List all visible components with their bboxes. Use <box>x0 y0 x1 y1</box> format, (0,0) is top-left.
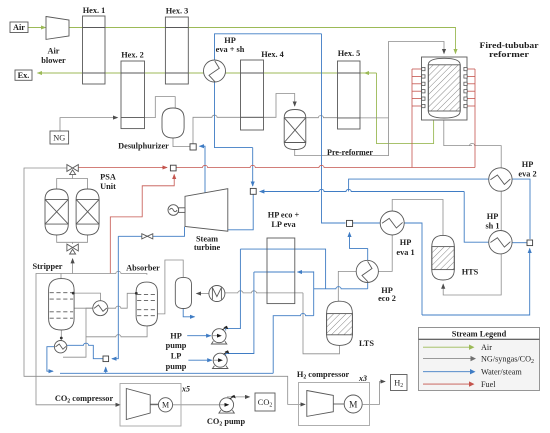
wire flash drum blue outlet <box>183 309 194 317</box>
svg-text:M: M <box>162 401 169 410</box>
wire PSA bottom piping <box>57 235 88 243</box>
svg-text:eva + sh: eva + sh <box>216 45 245 54</box>
mixer square sh1 feed <box>527 240 533 246</box>
svg-text:Air: Air <box>13 23 25 32</box>
svg-text:HP: HP <box>170 331 182 340</box>
wire sh mixer square outlet to sh1 <box>512 242 527 244</box>
wire NG Hex2 to desulphurizer top <box>145 97 176 118</box>
wire eva1 outlet drop <box>404 223 422 315</box>
Stripper column <box>49 279 75 330</box>
svg-text:x5: x5 <box>181 385 190 394</box>
legend arrow water <box>423 371 471 373</box>
CO2 compressor enclosure <box>120 384 181 427</box>
wire sh1 left riser <box>464 192 489 243</box>
H2 product box <box>391 375 408 391</box>
CO2 product box <box>255 393 275 411</box>
wire HP eco 2 to LTS top <box>338 271 356 301</box>
svg-text:pump: pump <box>166 341 187 350</box>
svg-text:Ex.: Ex. <box>18 71 30 80</box>
wire LP pump suction arrow <box>188 359 211 361</box>
wire steam extraction to NG mixer square <box>200 146 206 192</box>
reformer burner squares right <box>464 67 467 107</box>
Desulphurizer vessel <box>162 108 184 138</box>
svg-text:turbine: turbine <box>194 243 221 252</box>
wire syngas blower M to flash drum <box>197 293 209 295</box>
wire reboiler square right feed <box>112 236 118 358</box>
wire left burner manifold <box>411 69 413 168</box>
Pre-reformer vessel <box>284 110 306 150</box>
CO2 compressor body <box>126 389 172 420</box>
svg-text:sh 1: sh 1 <box>485 221 499 230</box>
wire steam header top to HP eva+sh circle <box>215 34 322 60</box>
Hex. 5 heat exchanger <box>338 61 361 129</box>
groups inserted below <box>28 28 456 144</box>
wire air line blower to reformer <box>69 28 456 54</box>
wire reboiler condensate out <box>47 347 55 372</box>
wire turbine square outlet to turbine exhaust corner <box>228 194 254 230</box>
svg-text:reformer: reformer <box>489 50 529 59</box>
turbine generator <box>168 205 185 216</box>
svg-text:HP eco +: HP eco + <box>268 211 300 220</box>
wire absorber overhead to PSA and CO2 line with hop over blue <box>36 271 147 404</box>
svg-text:NG: NG <box>53 133 65 142</box>
wire flue gas arrow into Hex 5 right side <box>365 72 377 74</box>
svg-text:Stripper: Stripper <box>33 262 63 271</box>
wire desulphurizer bottom to mixer square <box>173 138 190 147</box>
wire arrow into PSA bottom valve <box>72 259 74 274</box>
node stripper bottoms dot <box>60 337 63 340</box>
svg-text:Air: Air <box>481 343 492 352</box>
mixer square turbine feed <box>250 188 256 194</box>
wire H2 compressor outlet to H2 box <box>363 382 385 405</box>
legend arrow air <box>423 346 470 348</box>
label legend entries <box>481 343 534 389</box>
wire reboiler steam feed from square with hop <box>67 343 103 359</box>
wire eva2 feed branch <box>349 179 489 191</box>
wire right burner manifold <box>474 69 476 168</box>
wire HP eva+sh bottom down then right to turbine feed drop <box>215 82 253 148</box>
lean rich exchanger circle <box>93 301 108 316</box>
svg-text:Hex. 2: Hex. 2 <box>121 51 144 60</box>
svg-text:Stream Legend: Stream Legend <box>452 330 507 339</box>
mixer square NG steam <box>190 144 196 150</box>
wire PSA top valve to H2 header <box>24 168 305 404</box>
wire LTS bottom loop up <box>303 293 340 354</box>
LP pump <box>213 350 230 368</box>
svg-text:HP: HP <box>400 238 412 247</box>
stripper reboiler circle <box>54 341 66 353</box>
wire exchanger to absorber dot <box>108 293 136 308</box>
H2 compressor enclosure <box>299 383 370 426</box>
wire LP condensate drop from rect line <box>313 271 315 315</box>
wire stripper top to CO2 line <box>60 274 62 280</box>
wire condensate header left with hop over LTS loop <box>273 314 314 374</box>
wire pre-reformer side outlet to Hex 5 with hop over blue riser <box>306 116 338 118</box>
wire Hex4 to pre-reformer top <box>264 94 295 118</box>
wire HP eva 1 bottom to HP eco 2 <box>378 235 392 272</box>
svg-text:LP: LP <box>171 352 182 361</box>
svg-text:Hex. 3: Hex. 3 <box>166 7 189 16</box>
wire fuel main from PSA valve to burners with hops over blue <box>79 167 167 169</box>
wire flue gas riser right of Hex 5 <box>377 73 434 144</box>
svg-text:Water/steam: Water/steam <box>481 368 522 377</box>
wire stripper bottom to reboiler <box>60 330 62 341</box>
PSA top three-way valve <box>67 165 78 175</box>
mixer square reboiler feed <box>103 356 109 362</box>
wire syngas over fuel riser hop to eva2 string <box>443 144 501 296</box>
svg-text:Fired-tububar: Fired-tububar <box>480 41 539 50</box>
HP eva 2 exchanger circle <box>489 168 512 191</box>
svg-text:eva 2: eva 2 <box>518 170 536 179</box>
flash drum vessel <box>175 277 191 308</box>
svg-text:blower: blower <box>41 56 66 65</box>
svg-text:LP eva: LP eva <box>271 220 296 229</box>
wire right burner stubs <box>467 68 475 70</box>
Hex. 2 heat exchanger <box>121 61 145 129</box>
wire HP pump discharge riser <box>226 249 241 330</box>
HP eva 1 exchanger circle <box>380 211 404 235</box>
wire eco2 vertical pass <box>367 248 369 288</box>
svg-text:H2 compressor: H2 compressor <box>297 370 350 381</box>
svg-text:HP: HP <box>224 36 236 45</box>
wire drop into turbine square with hop context <box>252 148 254 186</box>
air blower <box>46 17 69 40</box>
HP sh 1 exchanger circle <box>489 231 512 254</box>
CO2 pump <box>219 395 236 413</box>
svg-text:x3: x3 <box>358 374 367 383</box>
svg-text:Desulphurizer: Desulphurizer <box>118 141 169 150</box>
wire right riser from bottom header <box>422 254 530 315</box>
wire pre-reformer bottom loop to reformer top <box>295 42 444 156</box>
mixer square eva1 feed <box>347 220 353 226</box>
svg-text:Unit: Unit <box>100 182 116 191</box>
wire through Hex 5 <box>338 117 361 119</box>
NG source box <box>50 131 69 144</box>
svg-text:eva 1: eva 1 <box>396 248 414 257</box>
Air source box <box>10 22 28 33</box>
svg-text:LTS: LTS <box>359 339 374 348</box>
wire flash drum feed inverted U from absorber <box>157 260 183 314</box>
steam line valve <box>142 234 153 239</box>
HP pump <box>211 326 228 344</box>
steam turbine <box>185 189 228 232</box>
wire absorber bottom to stripper side <box>86 326 147 337</box>
Ex sink box <box>15 70 32 80</box>
wire CO2 compressor to CO2 pump <box>150 404 220 406</box>
wire turbine condensate outlet <box>118 227 184 237</box>
svg-text:Absorber: Absorber <box>126 264 160 273</box>
svg-text:CO2 compressor: CO2 compressor <box>55 394 114 405</box>
wire CO2 pump to CO2 box <box>227 396 250 398</box>
PSA bottom three-way valve <box>67 244 78 254</box>
svg-text:Air: Air <box>48 47 60 56</box>
svg-text:M: M <box>349 400 358 410</box>
reformer burner squares left <box>422 67 425 107</box>
svg-text:HTS: HTS <box>462 267 479 276</box>
mixer square fuel <box>170 165 176 171</box>
svg-text:pump: pump <box>166 362 187 371</box>
Fired-tububar reformer enclosure <box>422 57 468 120</box>
reformer vessel <box>428 58 460 118</box>
HP eco 2 exchanger circle <box>356 260 378 282</box>
syngas blower M circle <box>209 286 225 302</box>
wire syngas M through HP eco rect with hops <box>225 291 303 293</box>
wire NG Hex2 crossing <box>121 117 145 119</box>
svg-text:HP: HP <box>522 160 534 169</box>
svg-text:Hex. 4: Hex. 4 <box>261 50 284 59</box>
legend arrow NG <box>423 358 472 360</box>
svg-text:PSA: PSA <box>100 172 116 181</box>
wire LP pump discharge riser <box>226 272 254 356</box>
wire Hex5 outlet to riser <box>360 117 389 119</box>
PSA vessel right <box>76 189 99 235</box>
Hex. 3 heat exchanger <box>165 17 188 84</box>
wire reformer syngas outlet down <box>444 120 472 145</box>
svg-text:eco 2: eco 2 <box>378 294 396 303</box>
wire exchanger left branch down <box>63 308 93 357</box>
wire sh1 steam line into turbine square <box>260 189 464 191</box>
svg-text:Hex. 5: Hex. 5 <box>338 49 361 58</box>
wire NG box to Hex 2 <box>60 118 118 131</box>
wire stripper dot to exchanger top <box>73 293 100 300</box>
HP eva + sh exchanger circle <box>204 60 226 82</box>
wire air feed from Air box to blower <box>28 27 46 29</box>
wire sh mixer square bottom feed <box>529 249 531 255</box>
Stream Legend box <box>419 328 540 391</box>
wire eco2 bottom header with hop over LTS feed <box>314 287 368 289</box>
wire eva2 outlet to sh mixer square <box>512 179 530 239</box>
svg-text:CO2 pump: CO2 pump <box>207 417 246 428</box>
wire LP water through rect arrow <box>298 271 314 273</box>
PSA vessel left <box>45 189 68 235</box>
wire steam drum branch to eva1 through mixer square <box>322 192 346 224</box>
svg-text:Fuel: Fuel <box>481 380 496 389</box>
svg-text:HP: HP <box>487 212 499 221</box>
svg-text:Hex. 1: Hex. 1 <box>83 6 106 15</box>
wire HP feedwater riser through HP eco rect <box>240 249 325 289</box>
wire reboiler square bottom feed <box>105 367 107 373</box>
HTS vessel <box>432 235 455 280</box>
wire left burner stubs <box>412 68 422 70</box>
LTS vessel <box>327 301 353 345</box>
Absorber column <box>136 282 157 326</box>
svg-text:NG/syngas/CO2: NG/syngas/CO2 <box>481 354 534 365</box>
HP eco + LP eva exchanger <box>267 238 295 304</box>
wire through Hex 4 <box>241 116 264 118</box>
wire long condensate bottom header <box>60 372 273 374</box>
H2 compressor body <box>307 391 362 417</box>
svg-text:Pre-reformer: Pre-reformer <box>327 148 373 157</box>
wire HP pump suction arrow <box>187 335 211 337</box>
wire stripper lower side to exchanger <box>74 307 93 309</box>
legend arrow fuel <box>423 383 470 385</box>
wire PSA top valve piping <box>57 175 73 190</box>
wire fuel side branch from syngas line up to fuel square <box>110 175 174 274</box>
Hex. 1 heat exchanger <box>83 16 106 84</box>
node absorber feed dot <box>135 292 138 295</box>
wire HTS top to HP eva 1 <box>392 200 443 236</box>
node stripper top dot <box>72 292 75 295</box>
wire flue gas exhaust main run to Ex box <box>38 72 377 74</box>
wire steam riser right of pre-reformer <box>321 34 323 192</box>
wire mixer square up and to Hex 4 with hop over blue <box>193 115 241 143</box>
wire eco2 to eva1 mixer square riser <box>350 233 368 249</box>
Hex. 4 heat exchanger <box>241 60 264 130</box>
